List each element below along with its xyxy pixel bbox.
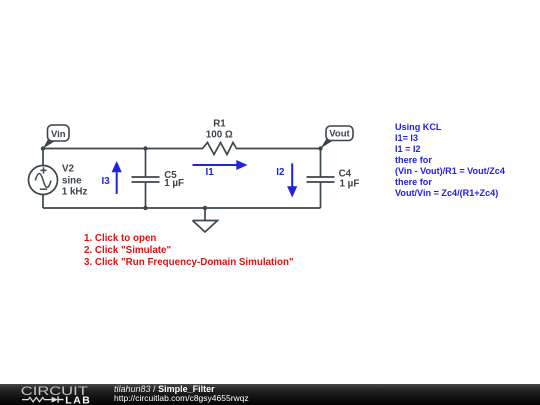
svg-text:1 µF: 1 µF [164, 178, 184, 189]
svg-text:R1: R1 [213, 118, 226, 129]
svg-text:1 µF: 1 µF [340, 178, 360, 189]
svg-text:100 Ω: 100 Ω [206, 129, 233, 140]
svg-text:V2: V2 [62, 164, 75, 175]
svg-text:1 kHz: 1 kHz [62, 186, 88, 197]
svg-text:I1: I1 [206, 167, 215, 178]
svg-text:I2: I2 [276, 167, 285, 178]
svg-text:sine: sine [62, 175, 82, 186]
svg-text:I3: I3 [102, 176, 111, 187]
svg-text:LAB: LAB [65, 395, 91, 405]
svg-text:Vin: Vin [51, 129, 66, 140]
svg-text:Vout: Vout [329, 129, 350, 140]
